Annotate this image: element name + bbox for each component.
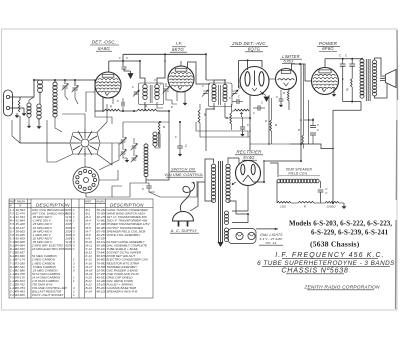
capacitor C18 line [146,186,151,188]
wire extra v2 bottom [172,100,177,104]
wire switch S1 feeds [20,116,70,143]
wire T4 HV bottom [228,201,248,214]
svg-text:R: R [298,128,300,132]
wire S2 to osc [112,183,146,197]
padder C2 ant [72,88,77,90]
svg-text:RALPH: RALPH [17,201,25,204]
svg-text:6F6G: 6F6G [322,46,334,51]
band switch S1 [70,129,100,157]
svg-text:Models 6-S-203, 6-S-222, 6-S-2: Models 6-S-203, 6-S-222, 6-S-223, [289,220,392,228]
antenna coil L3 [53,82,57,86]
wire x308 down [308,100,310,144]
speaker field coil L7 [277,179,281,183]
svg-text:NO. 44: NO. 44 [266,241,277,245]
wire extra top right [271,117,273,119]
capacitor C8 diode [237,99,239,104]
svg-text:6Q7G: 6Q7G [248,46,261,51]
wire V1 pins [102,98,104,112]
coil L8 left aux [27,103,31,107]
bus y144 [290,144,333,149]
trimmer C1 ant [62,86,67,88]
node dots extra [139,60,141,62]
wire long feed [196,122,248,131]
antenna terminal strip [4,90,13,116]
wire transformer drop [333,102,361,111]
ground L8 [28,124,30,126]
IFT2 box [209,83,233,107]
svg-text:DESCRIPTION: DESCRIPTION [36,202,70,207]
wire IFT1 primary top [140,61,145,85]
wire field top feed [332,110,334,148]
svg-text:16 MFD ELECTRO 450V: 16 MFD ELECTRO 450V [32,247,67,251]
wire IFT2 sec bottom [224,103,226,118]
svg-text:PILOT LIGHT SOCKET: PILOT LIGHT SOCKET [32,293,65,297]
svg-text:Nº: Nº [19,204,22,208]
svg-text:C: C [345,54,348,58]
coil L2 band [37,104,41,108]
wire lamp arrow [256,228,278,230]
capacitor C11 tone [349,64,355,66]
wire avc bus [250,143,269,145]
IFT1 primary [143,85,147,89]
svg-text:C: C [229,96,231,100]
svg-text:R: R [171,105,173,109]
wire bottom y101 [343,101,361,103]
IFT1 box [139,83,164,105]
dial lamp loop [228,229,256,244]
svg-text:C: C [247,123,250,127]
wire V3 vert x250 [249,95,251,151]
ground L2 [38,124,40,126]
wire V5 grid [300,64,312,81]
resistor R1 antenna shunt [18,100,20,112]
dial lamp 2 [248,232,255,239]
svg-text:CHASSIS Nº5638: CHASSIS Nº5638 [281,265,348,274]
node x169 [168,110,170,112]
wire V1 topcap [108,61,110,72]
T4 core ground [218,242,224,247]
wire field ends [276,181,278,203]
AC plug [173,212,194,221]
frame right edge [396,30,398,309]
svg-text:1500Ω: 1500Ω [326,205,336,209]
ground C3 [130,71,132,73]
capacitor C19 out [318,190,324,192]
T4 5V winding [225,211,229,215]
svg-text:A. C. SUPPLY: A. C. SUPPLY [170,229,198,233]
svg-text:PART: PART [85,201,92,204]
ground V3 cathode [262,93,266,96]
resistor R8 avc [270,120,272,131]
IFT2 primary [212,84,216,88]
volume control R2 [234,109,249,111]
node osc row [122,110,124,112]
capacitor C5a [122,102,124,106]
wire cap feed [304,119,313,121]
svg-text:C: C [160,82,162,86]
capacitor C16 filter [310,126,316,128]
wire V3 top box [239,59,262,61]
svg-text:RALPH: RALPH [97,201,105,204]
wire V1 left osc grid [86,92,95,112]
svg-text:FIELD COIL: FIELD COIL [288,172,307,176]
wire left verticals [12,120,20,143]
svg-text:SWITCH ON: SWITCH ON [171,166,195,171]
ground R1 [23,111,25,113]
svg-text:C: C [325,191,328,195]
IFT1 secondary [155,85,159,89]
svg-text:6A8G: 6A8G [98,46,110,51]
ground antenna strip [16,113,18,115]
svg-text:R: R [346,88,349,92]
output transformer T3 primary [360,59,364,63]
capacitor C17 filter [310,133,316,135]
svg-text:R: R [275,123,278,127]
svg-text:R: R [265,119,267,123]
trimmer C13b osc [132,158,137,160]
wire bus y58 [336,58,362,60]
T4 6.3V winding [225,228,229,232]
resistor R4 screen [351,79,353,88]
svg-text:Nº: Nº [10,204,13,208]
wire T4 HV top [228,158,239,164]
resistor R6 osc [158,122,160,134]
tube V2 6K7G [168,66,194,92]
capacitor C3 grid [122,67,127,69]
svg-text:1: 1 [73,279,75,283]
svg-text:C: C [253,111,255,115]
wire V2 cathode [176,92,178,102]
svg-text:SPEAKER 6 INCH P.M.: SPEAKER 6 INCH P.M. [107,290,139,294]
svg-text:VOLUME CONTROL: VOLUME CONTROL [164,172,203,177]
wire grid bus [34,79,95,81]
IFT2 secondary [223,84,227,88]
svg-text:C: C [117,99,120,103]
wire rect B+ [264,161,301,182]
T3 core [366,59,370,101]
tube V5 6F6G [312,68,339,95]
resistor R13 cath [287,91,289,101]
svg-text:6K7G: 6K7G [172,47,184,52]
wire V3 diode left [239,87,241,89]
svg-text:C: C [132,85,134,89]
IFT1 core [150,85,152,103]
speaker voice coil [380,76,385,81]
wire V3 right verts [268,95,270,144]
wire V4 plate [292,64,301,71]
resistor R5b osc [137,109,157,111]
wire V4 grid [269,78,276,80]
wire extra osc [94,92,96,111]
resistor R7 mix [198,110,200,123]
resistor R10 div [277,201,291,203]
svg-text:6J5G: 6J5G [283,58,293,63]
wire bus y54 [123,53,206,55]
svg-text:C: C [202,84,204,88]
dial lamp 1 [236,232,243,239]
svg-text:C: C [317,128,320,132]
wire V1 to osc row [103,110,104,112]
svg-text:C: C [239,84,241,88]
wire L8 top [24,100,29,108]
wire T3 sec top [375,58,382,75]
svg-text:DESCRIPTION: DESCRIPTION [110,202,144,207]
wire T4 primary loop [205,159,214,182]
wire IFT2 tops [214,80,225,85]
power transformer T4 core [219,161,223,242]
node bus dots [54,79,56,81]
wire V6 filament [243,210,245,212]
ground C9 lim [280,103,282,105]
wire V1 grid down [94,80,96,92]
capacitor C9 lim [279,99,284,101]
svg-text:#: # [126,56,128,60]
trimmer C5 input [163,89,168,91]
wire x343 down [342,79,344,102]
wire antenna top [10,80,34,97]
svg-text:1: 1 [73,247,75,251]
trimmer C7 IFT2 [232,90,239,97]
svg-text:C: C [276,95,279,99]
trimmer C4 IFT1 [134,92,138,94]
wire line to primary [155,181,205,192]
wire V5 plate top [325,59,336,68]
svg-text:3: 3 [73,268,75,272]
tube V3 6Q7G [240,67,269,96]
svg-text:K-24: K-24 [86,290,93,294]
svg-text:C: C [185,144,188,148]
resistor R5a osc [104,109,120,111]
wire mid bus1 [225,117,250,119]
wire field coil top feed [270,163,278,177]
ground C9b [242,132,244,134]
svg-text:34-605: 34-605 [16,293,26,297]
svg-text:VOICE COIL ASSEMBLY: VOICE COIL ASSEMBLY [107,233,142,237]
ground V2 [184,101,186,103]
wire osc left web [95,111,104,117]
svg-text:5Y4G: 5Y4G [243,155,255,160]
T4 HV secondary [226,164,230,168]
svg-text:C: C [175,135,177,139]
svg-text:C: C [142,187,145,191]
svg-text:6-S-229, 6-S-239, 6-S-241: 6-S-229, 6-S-239, 6-S-241 [311,229,389,237]
capacitor C14 pad [177,146,183,148]
wire switch S2 feeds [86,186,122,197]
T3 secondary [373,60,377,64]
svg-text:1: 1 [73,293,75,297]
svg-text:C: C [339,54,342,58]
ground C14 [179,152,181,154]
band switch S2 rear [73,167,99,193]
svg-text:(5638 Chassis): (5638 Chassis) [310,240,360,249]
trimmer C6 IFT2 [202,90,209,97]
wire V2 topcap [180,61,182,66]
svg-text:R: R [304,205,306,209]
coil L1 primary [38,80,43,85]
wire bus y61 [109,60,140,62]
wire IFT2 pri bottom [206,103,214,151]
tube V4 limiter [276,69,297,90]
wire T3 sec bottom [375,83,388,98]
svg-text:20Ω: 20Ω [279,205,287,209]
speaker cone [386,70,397,88]
ground C12 [126,158,128,160]
svg-text:C: C [238,95,241,99]
wire x333 to row [332,199,334,203]
svg-text:DET.-OSC.: DET.-OSC. [92,40,117,45]
capacitor C12b [121,152,126,154]
capacitor C9b av [240,127,245,129]
screen bus verticals [300,64,302,144]
svg-text:C: C [317,123,320,127]
resistor R12 div [325,201,339,203]
resistor R9 bleed [302,135,304,144]
wire osc mid [155,140,160,148]
wire osc verticals [145,143,147,144]
osc coil L5 tall [144,144,148,148]
svg-text:I.F.: I.F. [176,41,183,46]
svg-text:R: R [283,91,285,95]
T4 primary [211,164,215,168]
svg-text:C: C [308,118,310,122]
wire 5V right [232,214,248,223]
svg-text:I.F. FREQUENCY 456 K.C.: I.F. FREQUENCY 456 K.C. [275,252,384,259]
osc coil L4 [153,132,157,136]
svg-text:R: R [163,125,166,129]
wire osc row2 [123,121,169,123]
svg-text:#: # [154,79,156,82]
svg-text:RECTIFIER: RECTIFIER [237,149,263,154]
trimmer C13a osc [132,146,137,148]
wire V6 out [253,181,264,183]
svg-text:1: 1 [73,219,75,223]
wire V5 cathode gnd [333,88,335,92]
svg-text:2ND DET.-AVC: 2ND DET.-AVC [231,41,266,46]
capacitor C12a [121,140,126,142]
svg-text:C: C [261,101,264,105]
wire IFT1 bottoms [144,102,146,111]
wire cord to transformer [197,196,205,205]
wire IFT1 sec top [157,54,165,84]
ground divider [343,204,345,206]
IFT2 core [219,85,221,105]
parts table grid [9,199,153,298]
capacitor C10 tone [340,64,346,66]
wire V2 plate [188,62,211,84]
tube V6 5Y4G [236,161,261,186]
resistor R3 det [230,113,232,124]
tube V1 6A8G [95,72,121,98]
wire x169 long [168,61,170,111]
junction arrow T4 [232,182,236,185]
resistor R11 div [298,201,314,203]
svg-text:PART: PART [10,201,17,204]
bus wire x333 [332,110,334,199]
svg-text:98-126: 98-126 [97,290,107,294]
svg-text:R: R [110,105,112,109]
AC cord [180,182,194,211]
capacitor C15 coup [258,105,260,110]
svg-text:C: C [119,56,122,60]
